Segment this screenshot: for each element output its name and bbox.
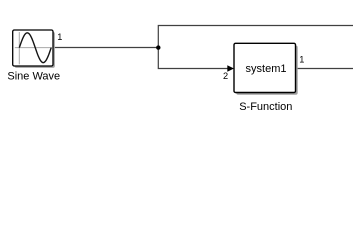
S-Function block shadow (236, 46, 298, 95)
wire from Sine Wave output to junction (53, 47, 159, 49)
sine icon horizontal axis (15, 47, 53, 49)
svg-text:1: 1 (57, 32, 62, 42)
Sine Wave block shadow (15, 32, 55, 68)
S-Function block body (234, 43, 296, 92)
sine icon vertical axis (18, 32, 20, 64)
svg-text:Sine Wave: Sine Wave (7, 71, 60, 83)
wire junction going up then right to edge (158, 26, 353, 48)
input arrowhead into S-Function (227, 65, 234, 72)
svg-text:S-Function: S-Function (239, 101, 292, 113)
wire from S-Function output to right edge (296, 68, 353, 70)
svg-text:system1: system1 (246, 63, 287, 75)
svg-text:1: 1 (299, 54, 304, 64)
wire junction going down then right into S-Function input (158, 48, 228, 69)
sine icon curve (19, 33, 51, 63)
junction dot (156, 45, 160, 49)
Sine Wave block body (13, 30, 53, 66)
svg-text:2: 2 (223, 71, 228, 81)
